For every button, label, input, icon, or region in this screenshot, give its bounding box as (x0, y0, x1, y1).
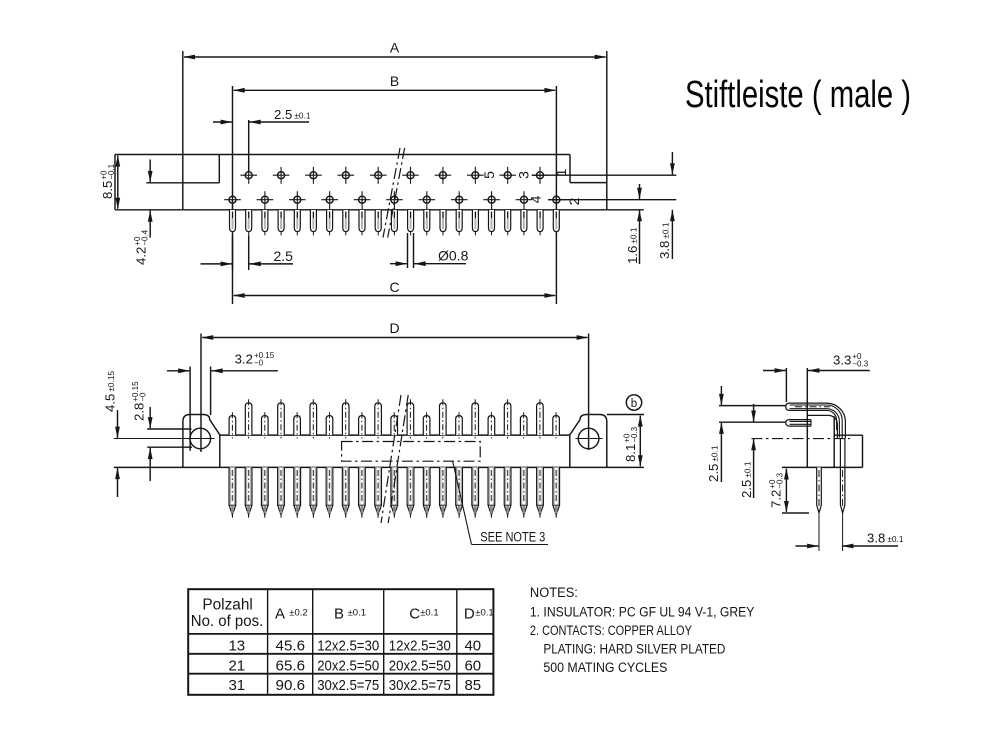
left mounting ear (183, 415, 220, 468)
top view pin circle bottom-row 9 (483, 191, 500, 210)
svg-text:−0.3: −0.3 (630, 426, 639, 442)
middle view upper short pin 8 (456, 412, 463, 438)
middle view lower pin 9 (359, 467, 366, 517)
top row extension line to 3.8 dim (532, 174, 676, 176)
middle view lower pin 19 (520, 467, 527, 517)
side view centreline (752, 438, 851, 440)
svg-text:4.2: 4.2 (134, 247, 149, 265)
svg-text:B: B (334, 605, 344, 622)
top view pin circle bottom-row 3 (289, 191, 306, 210)
top view pin circle bottom-row 1 (224, 191, 241, 210)
svg-text:21: 21 (228, 658, 245, 675)
svg-text:±0.1: ±0.1 (710, 445, 720, 461)
middle view break lines (381, 395, 408, 523)
table positions (188, 589, 494, 695)
middle view lower pin 21 (553, 467, 560, 517)
svg-text:85: 85 (464, 677, 481, 694)
top view pin circle top-row 5 (370, 167, 387, 184)
svg-text:PLATING: HARD SILVER PLATED: PLATING: HARD SILVER PLATED (543, 642, 725, 657)
middle view bar bottom edge (114, 466, 644, 468)
dimension D (202, 320, 588, 340)
top view left recess hidden step (146, 155, 219, 183)
svg-text:60: 60 (464, 658, 481, 675)
svg-text:3.2: 3.2 (235, 352, 253, 367)
middle view upper tall pin 1 (245, 399, 252, 438)
middle view upper tall pin 3 (310, 399, 317, 438)
middle view upper short pin 11 (553, 412, 560, 438)
svg-text:4.5: 4.5 (103, 394, 118, 412)
svg-text:±0.1: ±0.1 (629, 227, 639, 243)
svg-text:30x2.5=75: 30x2.5=75 (317, 677, 379, 694)
notes (530, 585, 755, 675)
top view pin circle top-row 1 (240, 167, 257, 184)
dimension C (233, 279, 556, 298)
middle view upper tall pin 5 (375, 399, 382, 438)
top view pin circle bottom-row 10 (516, 191, 533, 210)
middle view lower pin 5 (294, 467, 301, 517)
svg-text:2.5: 2.5 (706, 464, 721, 482)
svg-text:1.6: 1.6 (625, 246, 640, 264)
middle view upper tall pin 6 (407, 399, 414, 438)
top view solder tail 5 (294, 210, 300, 235)
svg-text:13: 13 (228, 638, 245, 655)
middle view upper tall pin 8 (472, 399, 479, 438)
svg-text:±0.1: ±0.1 (475, 607, 493, 618)
top view solder tail 9 (359, 210, 365, 235)
svg-text:4: 4 (528, 195, 544, 203)
SEE NOTE 3 leader and label (453, 461, 549, 545)
svg-text:±0.1: ±0.1 (743, 461, 753, 477)
svg-text:Ø0.8: Ø0.8 (438, 248, 469, 264)
top view solder tail 12 (408, 210, 414, 235)
polarizing slot rectangle (dash-dot) (342, 442, 481, 462)
svg-text:2. CONTACTS: COPPER ALLOY: 2. CONTACTS: COPPER ALLOY (530, 623, 692, 638)
top view solder tail 2 (246, 210, 252, 235)
top view solder tail 13 (424, 210, 430, 235)
svg-text:8.1: 8.1 (623, 444, 638, 462)
svg-text:2.8: 2.8 (132, 403, 147, 421)
side view downward pin A (817, 467, 822, 551)
svg-text:1: 1 (553, 168, 569, 176)
middle view upper tall pin 7 (440, 399, 447, 438)
dimension 8.1 +0/-0.3 (623, 415, 643, 467)
middle view upper short pin 9 (488, 412, 495, 438)
svg-text:3.8: 3.8 (867, 531, 885, 546)
svg-text:7.2: 7.2 (769, 490, 784, 508)
middle view lower pin 3 (261, 467, 268, 517)
middle view lower pin 10 (375, 467, 382, 517)
svg-text:3.8: 3.8 (657, 241, 672, 259)
middle view upper tall pin 9 (504, 399, 511, 438)
dimension 7.2 +0/-0.3 (768, 468, 809, 513)
top view pin circle top-row 9 (499, 167, 516, 184)
top view pin circle top-row 6 (402, 167, 419, 184)
middle view lower pin 18 (504, 467, 511, 517)
svg-text:12x2.5=30: 12x2.5=30 (317, 638, 379, 655)
top view solder tail 14 (440, 210, 446, 235)
pin centreline extension lines (left) (719, 406, 786, 423)
top view solder tail 10 (375, 210, 381, 235)
middle view lower pin 7 (326, 467, 333, 517)
svg-text:3.3: 3.3 (833, 353, 851, 368)
top view pin circle bottom-row 11 (548, 191, 565, 210)
top view solder tail 4 (278, 210, 284, 235)
svg-text:SEE NOTE 3: SEE NOTE 3 (480, 530, 545, 545)
middle view upper tall pin 2 (278, 399, 285, 438)
top view solder tail 11 (391, 210, 397, 235)
middle view lower pin 17 (488, 467, 495, 517)
top view solder tail 19 (521, 210, 527, 235)
dimension B (233, 73, 556, 93)
top view pin circle bottom-row 8 (451, 191, 468, 210)
dimension 3.8±0.1 (657, 152, 675, 259)
top view solder tail 16 (472, 210, 478, 235)
svg-text:−0.3: −0.3 (775, 472, 784, 488)
top view solder tail 3 (262, 210, 268, 235)
top view pin circle bottom-row 6 (386, 191, 403, 210)
dimension A (184, 40, 607, 60)
svg-text:31: 31 (228, 677, 245, 694)
dimension D extension lines (201, 334, 589, 453)
svg-text:b: b (631, 398, 637, 410)
dimension A extension lines (183, 51, 607, 210)
middle view lower pin 13 (423, 467, 430, 517)
dimension 2.5±0.1 (pin2 to centreline) (739, 404, 756, 498)
top view solder tail 15 (456, 210, 462, 235)
balloon b (626, 395, 641, 410)
dimension 2.5±0.1 (pin1 to pin2) (706, 386, 724, 482)
middle view bar top edge (220, 434, 570, 436)
svg-text:−0: −0 (138, 392, 147, 402)
svg-text:12x2.5=30: 12x2.5=30 (389, 638, 451, 655)
side view downward pin B (840, 438, 845, 551)
svg-text:NOTES:: NOTES: (530, 585, 578, 600)
middle view upper short pin 3 (294, 412, 301, 438)
svg-text:8.5: 8.5 (100, 181, 115, 199)
middle view lower pin 11 (391, 467, 398, 517)
svg-text:500 MATING CYCLES: 500 MATING CYCLES (543, 660, 667, 675)
svg-text:±0.1: ±0.1 (661, 222, 671, 238)
top view body outline (115, 155, 644, 210)
dimension 3.2 +0.15/-0 (167, 351, 278, 451)
top view solder tail 21 (553, 210, 559, 235)
left board slot lines (147, 429, 192, 447)
middle view upper tall pin 10 (537, 399, 544, 438)
svg-text:30x2.5=75: 30x2.5=75 (389, 677, 451, 694)
dimension 8.5 +0/-0.1 (100, 155, 121, 209)
svg-text:−0.1: −0.1 (107, 163, 116, 179)
middle view lower pin 15 (456, 467, 463, 517)
right mounting ear (570, 415, 607, 468)
middle view upper short pin 10 (520, 412, 527, 438)
svg-text:A: A (390, 40, 400, 56)
middle view upper short pin 4 (326, 412, 333, 438)
top view solder tail 18 (505, 210, 511, 235)
dimension 3.3 +0/-0.3 (763, 352, 870, 402)
top view solder tail 17 (489, 210, 495, 235)
top view pin circle top-row 7 (435, 167, 452, 184)
dimension 2.5±0.1 (pin offset) (213, 107, 311, 171)
side view rear block (834, 435, 862, 467)
dimension Ø0.8 (390, 233, 469, 268)
svg-text:±0.1: ±0.1 (294, 111, 310, 121)
dimension 2.5 (tail pitch) (201, 235, 294, 270)
dimension B extension lines (233, 86, 557, 304)
middle view lower pin 4 (278, 467, 285, 517)
top view pin circle bottom-row 7 (419, 191, 436, 210)
svg-text:±0.1: ±0.1 (887, 534, 903, 544)
middle view lower pin 14 (440, 467, 447, 517)
middle view upper short pin 7 (423, 412, 430, 438)
svg-text:2: 2 (566, 197, 582, 205)
svg-text:90.6: 90.6 (276, 677, 306, 694)
top view pin circle top-row 10 (532, 167, 549, 184)
top view pin circle top-row 4 (338, 167, 355, 184)
svg-text:40: 40 (464, 638, 481, 655)
svg-text:−0.4: −0.4 (140, 229, 149, 245)
svg-text:No. of pos.: No. of pos. (191, 613, 264, 630)
middle view lower pin 16 (472, 467, 479, 517)
top view break lines (383, 148, 405, 238)
svg-text:45.6: 45.6 (276, 638, 306, 655)
middle view lower pin 8 (342, 467, 349, 517)
top view solder tail 20 (537, 210, 543, 235)
middle view lower pin 20 (537, 467, 544, 517)
dimension 3.8±0.1 (side view) (796, 531, 904, 549)
svg-text:2.5: 2.5 (739, 480, 754, 498)
svg-text:−0.3: −0.3 (852, 359, 868, 368)
svg-text:20x2.5=50: 20x2.5=50 (317, 658, 379, 675)
dimension 1.6±0.1 (625, 184, 642, 264)
svg-text:C: C (409, 605, 420, 622)
top view pin circle bottom-row 2 (257, 191, 274, 210)
top view pin circle bottom-row 5 (354, 191, 371, 210)
svg-text:−0: −0 (254, 358, 264, 367)
dimension 8.1 +0/-0.3 extension lines (607, 414, 644, 416)
svg-text:20x2.5=50: 20x2.5=50 (389, 658, 451, 675)
top view pin circle top-row 8 (467, 167, 484, 184)
svg-text:A: A (275, 605, 285, 622)
svg-text:±0.1: ±0.1 (420, 607, 438, 618)
dimension 2.8 +0.15/-0 (131, 381, 153, 481)
left ear hole (114, 428, 215, 449)
svg-text:±0.1: ±0.1 (348, 607, 366, 618)
middle view lower pin 6 (310, 467, 317, 517)
middle view lower pin 12 (407, 467, 414, 517)
svg-text:C: C (389, 279, 399, 295)
svg-text:3: 3 (516, 171, 532, 179)
top view pin circle top-row 3 (305, 167, 322, 184)
svg-text:B: B (390, 73, 399, 89)
dimension 4.5±0.15 (103, 371, 120, 497)
side view pin 2 (second, hidden bend) (786, 420, 811, 427)
svg-text:2.5: 2.5 (274, 248, 294, 264)
svg-text:65.6: 65.6 (276, 658, 306, 675)
side view body front (807, 368, 837, 467)
top view solder tail 7 (327, 210, 333, 235)
side view bottom edge (782, 466, 863, 468)
svg-text:Polzahl: Polzahl (202, 597, 253, 614)
top view solder tail 1 (230, 210, 236, 235)
middle view upper short pin 5 (359, 412, 366, 438)
middle view upper short pin 1 (229, 412, 236, 438)
top view pin circle top-row 2 (273, 167, 290, 184)
middle view lower pin 2 (245, 467, 252, 517)
svg-text:2.5: 2.5 (274, 107, 292, 122)
top view solder tail 6 (310, 210, 316, 235)
middle view upper short pin 6 (391, 412, 398, 438)
svg-text:±0.2: ±0.2 (289, 607, 307, 618)
svg-text:1. INSULATOR: PC GF UL 94 V-1,: 1. INSULATOR: PC GF UL 94 V-1, GREY (530, 605, 755, 620)
middle view lower pin 1 (229, 467, 236, 517)
top view solder tail 8 (343, 210, 349, 235)
middle view upper tall pin 4 (342, 399, 349, 438)
svg-text:D: D (464, 605, 475, 622)
dimension 4.2 +0/-0.4 (133, 160, 153, 266)
svg-text:±0.15: ±0.15 (106, 371, 116, 392)
side view pin 1 (top, bent) (786, 403, 846, 438)
right ear hole (576, 428, 603, 449)
top view pin circle bottom-row 4 (321, 191, 338, 210)
svg-text:5: 5 (481, 171, 497, 179)
svg-text:Stiftleiste ( male ): Stiftleiste ( male ) (685, 74, 911, 116)
bottom row extension line to 1.6 dim (548, 199, 676, 201)
middle view upper short pin 2 (262, 412, 269, 438)
svg-text:D: D (389, 320, 399, 336)
